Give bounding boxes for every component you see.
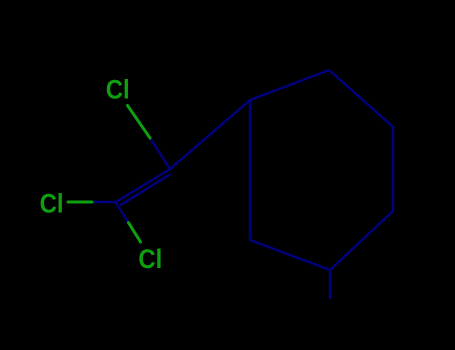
svg-text:Cl: Cl (138, 245, 162, 275)
svg-text:Cl: Cl (40, 189, 64, 219)
svg-text:Cl: Cl (106, 75, 130, 105)
